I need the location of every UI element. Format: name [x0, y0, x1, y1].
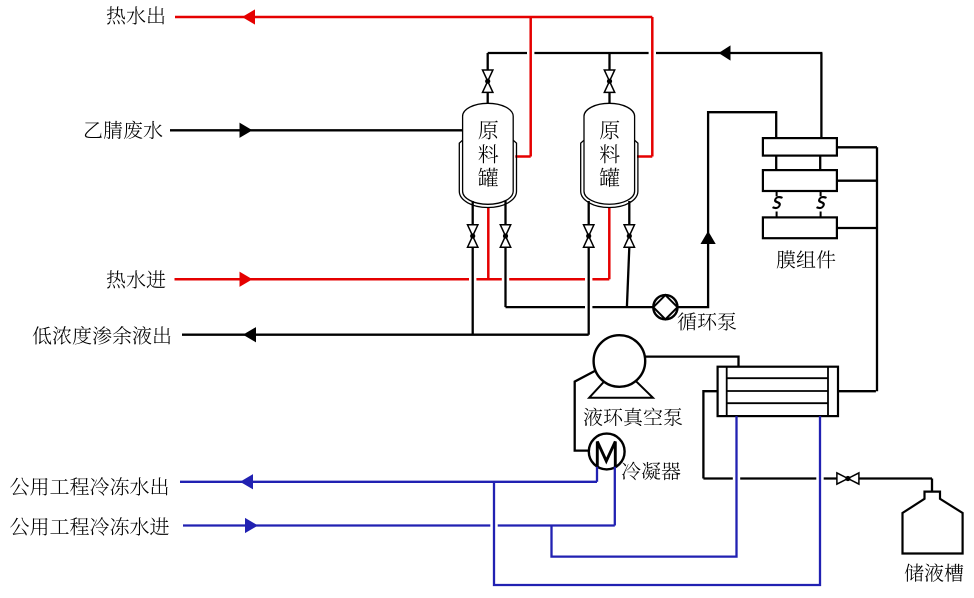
tank T3 储液槽 (storage tank) — [903, 492, 963, 554]
label 循环泵 (circulation pump) — [678, 312, 736, 330]
wire acetonitrile feed — [170, 129, 463, 131]
label 公用工程冷冻水出 (utility chilled water out) — [10, 477, 168, 495]
wire E1 right port to manifold — [838, 390, 876, 392]
condenser E2 冷凝器 (circle-M symbol) — [589, 434, 625, 470]
wire low-conc retentate out — [182, 334, 589, 336]
wire pump discharge to membrane feed — [678, 112, 777, 307]
label 原料罐 (T1) — [478, 120, 498, 186]
arrow retentate (left) — [244, 328, 256, 342]
wire module2-module3 stub right lower — [820, 212, 822, 218]
vessel T2 原料罐 (jacketed feed tank 2) — [581, 140, 638, 207]
wire hot-water-out header (red) — [175, 16, 652, 19]
arrow membrane feed (up) — [701, 232, 715, 244]
wire condensate line to storage tank — [703, 477, 932, 479]
label 低浓度渗余液出 (low-conc retentate out) — [33, 326, 171, 345]
wire permeate manifold down to condenser HX — [876, 147, 878, 391]
wire chilled water supply (blue in) — [183, 524, 615, 526]
wire module1 permeate port — [837, 146, 877, 148]
wire condenser cw out drop — [596, 467, 598, 482]
label 热水进 (hot water in) — [107, 270, 166, 288]
wire vacuum pump suction from condenser — [575, 371, 596, 451]
wire red drop from T2 jacket bottom — [608, 207, 611, 279]
membrane module 膜组件 housing 1 — [763, 138, 837, 156]
label 乙腈废水 (acetonitrile wastewater) — [85, 121, 163, 139]
wire vapour line to membrane module — [820, 53, 822, 138]
label 公用工程冷冻水进 (utility chilled water in) — [10, 517, 169, 535]
wire T1 top valve stem lower — [487, 92, 489, 104]
wire T2 bottom-left outlet lower — [588, 248, 590, 335]
heat-exchanger E1 (shell & tube) outline — [718, 367, 838, 416]
symbol S (continuation) right — [817, 197, 826, 208]
wire E1 left port down — [703, 391, 717, 478]
label 膜组件 (membrane modules) — [777, 250, 836, 268]
wire T2 bottom-left outlet upper — [588, 201, 590, 225]
wire cw supply branch to E1 left — [552, 416, 737, 556]
arrow feed (right) — [240, 124, 252, 138]
wire T2 top valve stem upper — [608, 53, 610, 70]
wire T1 top valve stem upper — [487, 53, 489, 70]
wire cw return branch from E1 right — [494, 416, 820, 585]
arrow hot-water-in (right) — [240, 273, 252, 287]
wire T2 bottom-right outlet lower (slanted) — [627, 248, 629, 308]
wire T2 top valve stem lower — [608, 92, 610, 104]
wire E1 tube line 1 — [727, 377, 828, 379]
valve V2 (T2 top) — [604, 70, 614, 92]
arrow hot-water-out (left) — [243, 10, 255, 24]
wire chilled water return (blue out) — [180, 481, 597, 483]
wire E1 right tube sheet — [827, 367, 829, 416]
label 冷凝器 (condenser) — [622, 462, 681, 480]
valve V4 (T1 bottom right) — [500, 225, 510, 247]
wire T2 bottom-right outlet upper — [628, 201, 630, 225]
wire T1 bottom-left outlet lower — [472, 248, 474, 335]
arrow vapour return (left) — [720, 46, 731, 60]
symbol S (continuation) left — [773, 197, 782, 208]
wire T1 bottom-right outlet upper — [504, 201, 506, 225]
wire drop into storage tank — [931, 479, 933, 492]
wire module2-module3 stub left lower — [776, 212, 778, 218]
wire red riser from tank T2 jacket — [651, 17, 654, 157]
wire T1 bottom-left outlet upper — [472, 201, 474, 225]
wire module2 permeate port — [837, 180, 877, 182]
label 储液槽 (storage tank) — [905, 563, 964, 581]
wire red stub into T1 jacket — [515, 155, 530, 158]
wire vacuum pump discharge to HX shell — [645, 357, 739, 367]
label 热水出 (hot water out) — [107, 6, 165, 24]
membrane module housing 2 — [763, 170, 837, 191]
valve V5 (T2 bottom left) — [584, 225, 594, 247]
wire red stub into T2 jacket — [637, 155, 652, 158]
wire module2-module3 stub left upper — [776, 191, 778, 196]
pump P1 循环泵 (circulation pump) — [653, 295, 677, 319]
wire module1-module2 connector left — [775, 156, 777, 171]
wire module3 permeate port — [837, 227, 877, 229]
valve V6 (T2 bottom right) — [624, 225, 634, 247]
wire T1 bottom-right outlet lower — [504, 248, 506, 308]
wire E1 tube line 3 — [727, 402, 828, 404]
wire red riser from tank T1 jacket — [529, 17, 532, 157]
wire E1 left tube sheet — [726, 367, 728, 416]
wire condenser cw in riser — [614, 467, 616, 526]
valve V1 (T1 top) — [483, 70, 493, 92]
vessel T1 原料罐 (jacketed feed tank 1) — [459, 140, 516, 207]
arrow chilled water in (right) — [246, 519, 258, 533]
arrow chilled water out (left) — [241, 475, 253, 489]
wire red drop from T1 jacket bottom — [487, 207, 490, 279]
wire module2-module3 stub right upper — [820, 191, 822, 196]
wire pump suction header — [506, 306, 654, 308]
label 原料罐 (T2) — [600, 120, 620, 186]
pump P2 液环真空泵 (liquid ring vacuum pump) — [589, 365, 653, 398]
valve V7 (condensate) — [837, 473, 859, 484]
wire hot-water-in header (red) — [175, 278, 610, 281]
wire module1-module2 connector right — [819, 156, 821, 171]
valve V3 (T1 bottom left) — [468, 225, 478, 247]
membrane module housing 3 — [763, 217, 837, 238]
wire E1 tube line 2 — [727, 390, 828, 392]
label 液环真空泵 (liquid ring vacuum pump) — [584, 408, 682, 427]
wire vapour return header — [488, 52, 823, 54]
